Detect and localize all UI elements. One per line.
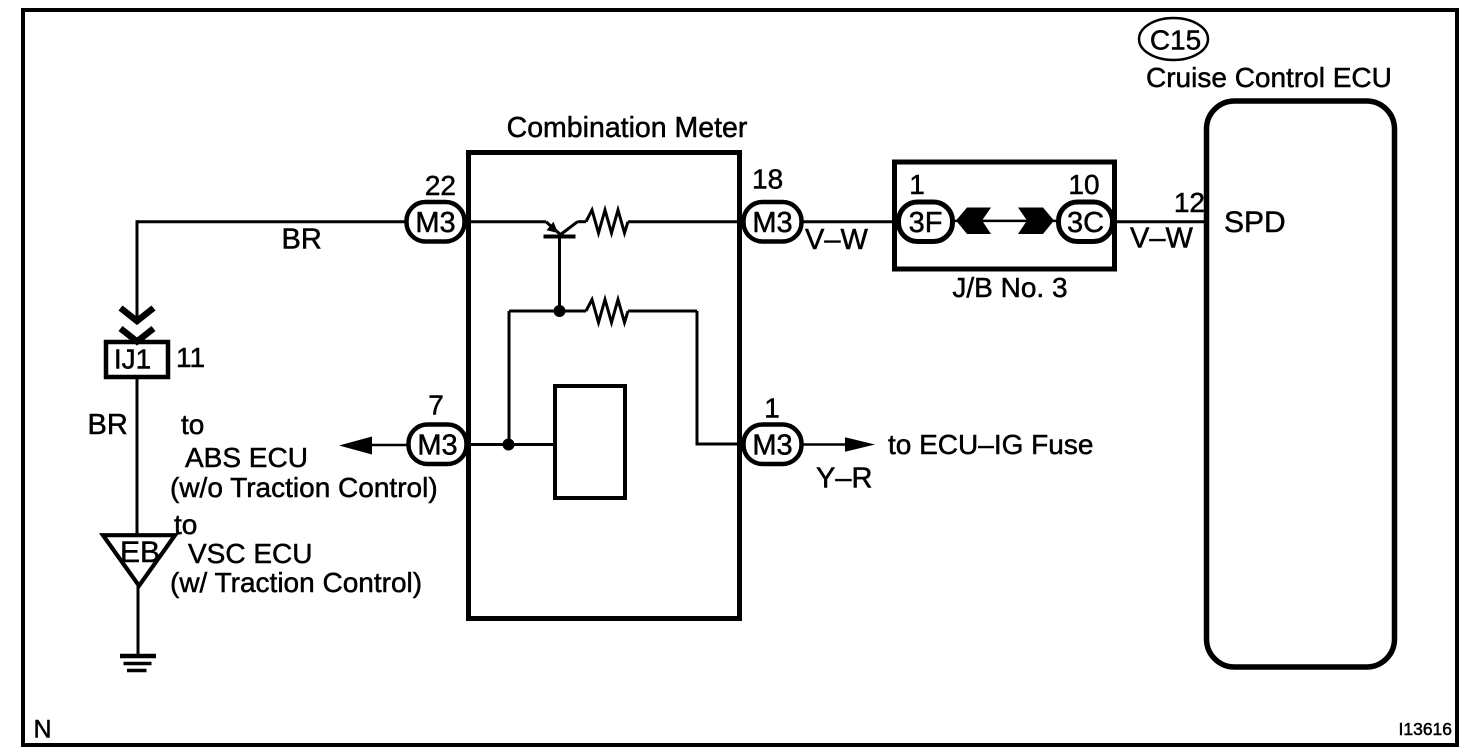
svg-text:11: 11	[176, 342, 205, 373]
svg-text:IJ1: IJ1	[114, 344, 151, 375]
svg-text:1: 1	[909, 169, 925, 200]
svg-text:SPD: SPD	[1224, 206, 1286, 239]
svg-text:3C: 3C	[1067, 207, 1104, 239]
svg-text:Cruise Control ECU: Cruise Control ECU	[1146, 62, 1392, 93]
svg-text:to ECU–IG Fuse: to ECU–IG Fuse	[888, 429, 1093, 460]
svg-text:7: 7	[428, 390, 444, 421]
svg-text:BR: BR	[88, 409, 128, 441]
svg-text:12: 12	[1174, 187, 1205, 218]
svg-text:18: 18	[752, 164, 783, 195]
svg-text:to: to	[174, 509, 197, 540]
svg-text:C15: C15	[1150, 25, 1201, 56]
svg-text:M3: M3	[415, 207, 455, 239]
svg-text:Y–R: Y–R	[816, 463, 872, 495]
svg-text:10: 10	[1068, 169, 1099, 200]
svg-text:V–W: V–W	[805, 224, 868, 256]
svg-text:(w/o Traction Control): (w/o Traction Control)	[170, 472, 438, 503]
svg-text:to: to	[181, 409, 204, 440]
svg-text:Combination Meter: Combination Meter	[507, 112, 748, 144]
svg-text:J/B No. 3: J/B No. 3	[952, 272, 1067, 303]
svg-text:M3: M3	[417, 430, 457, 462]
svg-text:N: N	[34, 716, 52, 744]
svg-text:V–W: V–W	[1130, 223, 1193, 255]
svg-text:I13616: I13616	[1399, 719, 1453, 739]
svg-text:M3: M3	[752, 207, 792, 239]
svg-text:BR: BR	[282, 224, 322, 256]
svg-text:VSC ECU: VSC ECU	[188, 538, 312, 569]
svg-text:1: 1	[764, 393, 780, 424]
svg-text:M3: M3	[752, 430, 792, 462]
svg-text:ABS ECU: ABS ECU	[185, 442, 308, 473]
svg-text:(w/ Traction Control): (w/ Traction Control)	[170, 567, 422, 598]
svg-text:EB: EB	[120, 536, 160, 569]
svg-text:22: 22	[425, 170, 456, 201]
svg-text:3F: 3F	[909, 207, 943, 239]
